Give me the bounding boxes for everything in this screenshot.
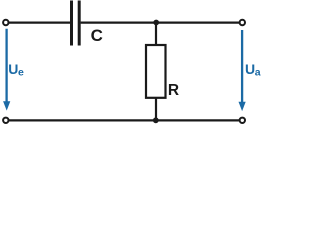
svg-text:e: e <box>18 67 24 79</box>
svg-text:U: U <box>8 61 18 77</box>
svg-text:C: C <box>91 26 103 45</box>
svg-text:a: a <box>255 67 261 79</box>
svg-text:U: U <box>245 61 255 77</box>
svg-text:R: R <box>168 82 179 99</box>
